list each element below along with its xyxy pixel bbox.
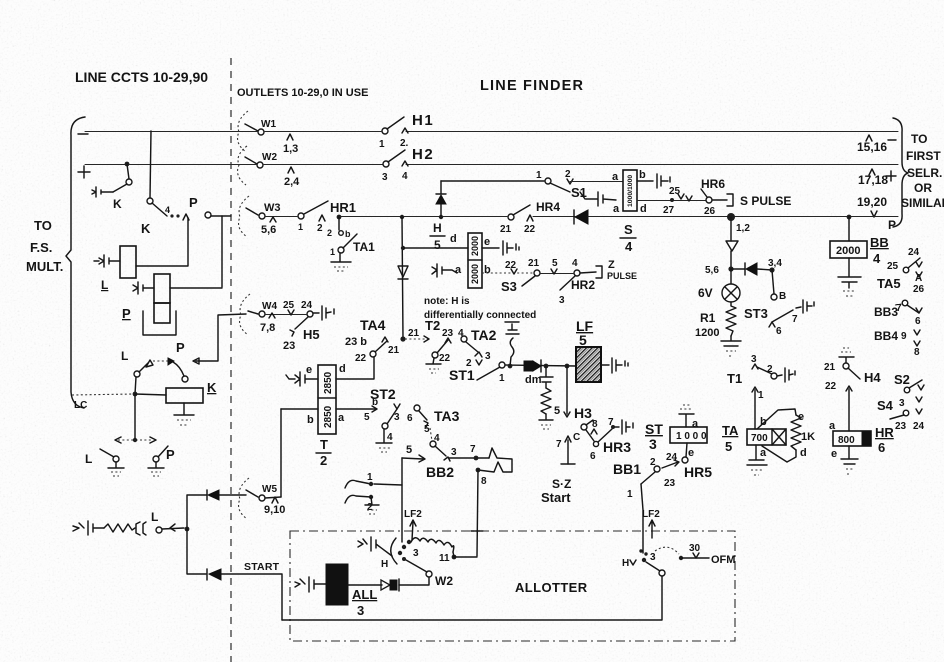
svg-text:4: 4 (165, 205, 170, 215)
capacitor HR3 (615, 420, 633, 434)
contact mark T2 (445, 338, 451, 343)
switch K (battery contact) circle (126, 179, 132, 185)
svg-text:3: 3 (485, 351, 491, 362)
svg-text:W2: W2 (262, 152, 277, 163)
svg-text:B: B (779, 291, 786, 302)
svg-text:21: 21 (408, 328, 420, 339)
svg-text:d: d (640, 203, 647, 215)
wire line3 to 2000 box (847, 215, 852, 220)
svg-text:21: 21 (500, 224, 512, 235)
wire down from P node to P relay (221, 216, 223, 287)
wire into W1 (245, 124, 258, 131)
svg-text:3: 3 (751, 354, 757, 365)
svg-text:L: L (101, 278, 108, 292)
svg-text:5: 5 (364, 412, 370, 423)
switch W2 contact circle (257, 162, 263, 168)
svg-text:8: 8 (592, 419, 598, 430)
wire line1 right segment (406, 131, 898, 133)
svg-text:24: 24 (301, 300, 313, 311)
wire W4 to H5 (265, 314, 306, 316)
svg-text:26: 26 (913, 284, 925, 295)
svg-text:d: d (800, 447, 807, 459)
svg-text:S3: S3 (501, 279, 517, 294)
spark quench loop (478, 448, 512, 472)
contact gap mark (136, 522, 146, 535)
svg-text:15,16: 15,16 (857, 140, 887, 154)
wire into W5 (246, 490, 258, 497)
wire contact2 to coil box a (570, 181, 623, 183)
capacitor right of LF (601, 358, 628, 373)
svg-text:a: a (613, 203, 620, 215)
svg-text:H3: H3 (574, 405, 592, 421)
armature H3 to 8 (586, 420, 593, 425)
battery P (133, 282, 154, 294)
capacitor ST3 (796, 300, 814, 313)
separator dashed line (230, 58, 232, 662)
svg-text:LC: LC (74, 400, 87, 411)
svg-text:2: 2 (767, 364, 773, 375)
armature T2 (437, 340, 448, 353)
wire bus to 2000 box (403, 247, 468, 249)
svg-text:5: 5 (554, 405, 560, 417)
svg-text:e: e (688, 447, 694, 459)
wire 2 to ground (365, 497, 379, 505)
svg-text:TO: TO (911, 132, 927, 146)
plus polarity mark line 2 (78, 166, 90, 178)
svg-text:6: 6 (776, 326, 782, 337)
svg-text:5: 5 (406, 444, 412, 456)
svg-text:9: 9 (901, 331, 907, 342)
label 17,18 plus (869, 169, 875, 175)
armature TA3 lower (435, 446, 446, 456)
relay stack 2850/2850 (318, 365, 336, 434)
contact arrow 22 (527, 215, 533, 221)
armature H3 to b (586, 430, 594, 441)
svg-text:1 0 0 0: 1 0 0 0 (676, 431, 707, 442)
wire corner to hooks (374, 458, 402, 485)
resistor bottom-left (104, 524, 135, 532)
rotary dots (407, 540, 411, 544)
switch K armature (113, 184, 127, 192)
switch W4 contact circle (259, 311, 265, 317)
svg-text:8: 8 (914, 347, 920, 358)
resistor R1 (726, 302, 736, 336)
wire line1 middle segment (265, 131, 381, 133)
switch P circle (205, 212, 211, 218)
junction dot HR1 node (337, 215, 342, 220)
hook contact 2 (345, 495, 371, 503)
svg-text:7: 7 (556, 439, 562, 450)
svg-text:K: K (113, 197, 122, 211)
svg-text:23 b: 23 b (345, 336, 367, 348)
capacitor e (482, 241, 519, 255)
armature BB1 (641, 472, 655, 484)
svg-text:2000: 2000 (470, 236, 480, 256)
diode on line3 (filled, left) (575, 210, 588, 224)
rotary LF2 left arc (391, 538, 397, 564)
wire TA1 stem (338, 217, 340, 230)
multiple arrow wire (double headed) (118, 439, 153, 441)
outlet arc W3 (239, 196, 249, 237)
switch H1 circle (382, 128, 388, 134)
wire line3 from node to HR4 (339, 216, 507, 218)
svg-text:b: b (307, 414, 314, 426)
S pulse bracket (712, 194, 733, 206)
switch ST1 circle (499, 362, 505, 368)
vertical bus x402 (402, 217, 403, 339)
switch H1 armature (387, 117, 404, 129)
BB2 wire 5 arrow (402, 455, 425, 462)
yoke U shape (143, 311, 176, 335)
svg-text:P: P (888, 218, 896, 232)
svg-text:3: 3 (357, 603, 364, 618)
switch S2 (904, 387, 910, 393)
svg-text:START: START (244, 561, 280, 573)
switch HR2 circle (574, 270, 580, 276)
svg-text:H1: H1 (412, 112, 434, 129)
svg-text:TA5: TA5 (877, 276, 901, 291)
ground TA1 (331, 253, 351, 262)
contact dots K/P row (170, 214, 173, 217)
svg-text:26: 26 (704, 206, 716, 217)
capacitor T1 (777, 368, 795, 382)
wire a to ST2 (336, 408, 376, 410)
LC dotted wire from bracket (72, 394, 135, 395)
svg-text:HR3: HR3 (603, 439, 631, 455)
diode ALL (filled right) (381, 580, 390, 590)
lamp 6V stem (730, 269, 732, 284)
wire right to diode (731, 268, 745, 270)
svg-text:HR4: HR4 (536, 200, 560, 214)
arrow up W4 (269, 313, 275, 318)
junction 7 (474, 456, 479, 461)
wire down to K contact (127, 164, 129, 179)
svg-text:ALL: ALL (352, 587, 377, 602)
svg-text:a: a (455, 264, 462, 276)
wire W3 to second contact (265, 216, 297, 218)
svg-text:6V: 6V (698, 286, 713, 300)
armature ST3 (772, 310, 793, 322)
TA4 contact arrow (382, 337, 388, 342)
arrow 5,6 (270, 217, 276, 222)
svg-text:17,18: 17,18 (858, 173, 888, 187)
svg-text:HR2: HR2 (571, 278, 595, 292)
diode on bus (hollow, down) (398, 266, 408, 279)
link into W4 circle (248, 311, 258, 314)
svg-text:23: 23 (664, 478, 676, 489)
svg-text:3: 3 (394, 412, 400, 423)
junction 1,2 on line3 (727, 213, 735, 221)
switch L start circle (156, 527, 162, 533)
svg-text:b: b (345, 229, 351, 239)
switch H3 circle (581, 424, 587, 430)
wire diode to 5,6 node (730, 251, 732, 269)
dotted wire b to S3 (482, 272, 533, 274)
wire node to K box (135, 394, 166, 395)
svg-text:25: 25 (887, 261, 899, 272)
switch HR6 circle (706, 197, 712, 203)
LF2 arrow right (649, 520, 655, 538)
wire LC node down (134, 394, 136, 439)
dotted link down (430, 428, 432, 441)
svg-text:TA1: TA1 (353, 240, 375, 254)
relay K box (166, 388, 203, 403)
armature H4 (848, 368, 860, 379)
svg-text:BB3: BB3 (874, 305, 898, 319)
svg-text:OUTLETS 10-29,0 IN USE: OUTLETS 10-29,0 IN USE (237, 87, 368, 99)
junction start (185, 527, 190, 532)
wire line2 left segment (85, 164, 256, 166)
svg-text:note: H is: note: H is (424, 296, 470, 307)
switch S4 (903, 410, 909, 416)
battery L (94, 255, 120, 267)
ground ST2 (376, 429, 392, 443)
svg-text:differentially connected: differentially connected (424, 310, 536, 321)
svg-text:T: T (320, 437, 328, 452)
svg-text:4: 4 (402, 171, 408, 182)
circle L bottom (113, 456, 119, 462)
wire line1 left segment (85, 131, 257, 133)
switch W1 contact circle (258, 129, 264, 135)
svg-text:e: e (306, 364, 312, 376)
allotter bottom wire (282, 576, 662, 620)
arrow contact to W4 wire (193, 314, 246, 364)
svg-text:5,6: 5,6 (261, 224, 276, 236)
armature L start (162, 528, 184, 529)
switch TA3 upper circle (414, 405, 420, 411)
svg-text:3: 3 (451, 447, 457, 458)
switch H2 armature (388, 150, 405, 162)
svg-text:700: 700 (751, 433, 768, 444)
resistor box 2000 (830, 241, 867, 258)
svg-text:22: 22 (524, 224, 536, 235)
switch TA3 lower circle (430, 441, 436, 447)
wire into W2 (245, 157, 257, 164)
lamp 6V (722, 284, 740, 302)
svg-text:8: 8 (481, 476, 487, 487)
svg-text:SELR.: SELR. (907, 166, 942, 180)
svg-text:24: 24 (913, 421, 925, 432)
T stem over 1000 box (679, 414, 694, 427)
svg-text:22: 22 (439, 353, 451, 364)
switch H4 circle (843, 363, 849, 369)
junction 11 (452, 555, 457, 560)
dashed arrow bus to T2 (405, 338, 428, 340)
svg-text:LINE FINDER: LINE FINDER (480, 78, 584, 94)
svg-text:1: 1 (379, 139, 385, 150)
arrow 2,4 on line2 (288, 167, 294, 173)
wire from L circle down to LC node (135, 377, 136, 394)
contact arrow up (183, 214, 189, 220)
svg-text:22: 22 (825, 381, 837, 392)
switch K2 armature (152, 203, 167, 216)
switch BB1 circle (654, 466, 660, 472)
relay box 2000/2000 (468, 233, 482, 288)
svg-text:H2: H2 (412, 146, 434, 163)
svg-text:HR1: HR1 (330, 200, 356, 215)
switch W3b circle (298, 213, 304, 219)
wire P box to vertical (170, 287, 222, 289)
contact mark H2 (402, 161, 408, 166)
ground under capacitor (843, 291, 856, 296)
contact mark 6 (769, 322, 775, 327)
contact arrow 5 (424, 421, 428, 427)
armature L pair (139, 363, 148, 372)
ground P bottom (148, 462, 164, 468)
junction 3,4 (769, 267, 774, 272)
switch HR4 circle (508, 214, 514, 220)
diode hollow down (726, 241, 738, 251)
switch W3 contact circle (259, 213, 265, 219)
svg-text:ST3: ST3 (744, 306, 768, 321)
contact mark (686, 196, 692, 201)
armature P pair (173, 362, 184, 376)
svg-text:11: 11 (439, 553, 450, 564)
wire LF junction down to H3 (566, 366, 568, 414)
svg-text:P: P (166, 447, 175, 462)
svg-text:7: 7 (792, 314, 798, 325)
svg-text:HR6: HR6 (701, 177, 725, 191)
wire up to W5 diode row (187, 495, 207, 529)
svg-text:21: 21 (528, 258, 540, 269)
wire box to HR5 (686, 443, 687, 457)
svg-text:23: 23 (283, 340, 295, 352)
svg-text:Start: Start (541, 490, 571, 505)
svg-text:5: 5 (424, 424, 430, 435)
armature S1 (550, 183, 570, 192)
junction wiper right (642, 558, 646, 562)
resistor box 1000 (670, 427, 707, 443)
wire ALL to diode (348, 584, 382, 586)
junction on line2 (K feed) (125, 162, 130, 167)
label 15,16 minus (866, 135, 872, 141)
svg-text:S·Z: S·Z (552, 477, 571, 491)
svg-text:23: 23 (895, 421, 907, 432)
switch H5 circle (307, 311, 313, 317)
svg-text:ALLOTTER: ALLOTTER (515, 580, 588, 595)
ground under K box (174, 403, 194, 415)
wire d row (637, 200, 706, 202)
armature ST1 (477, 367, 500, 380)
svg-text:HR: HR (875, 425, 894, 440)
wire L box to vertical (136, 218, 188, 266)
svg-text:K: K (207, 380, 217, 395)
circle P bottom (153, 456, 159, 462)
outlet arc W5 (239, 478, 249, 519)
junction 5,6 (728, 266, 733, 271)
vertical feed from line1 to K/P switch (150, 131, 151, 198)
wire down to 800 box (848, 389, 850, 431)
svg-text:R1: R1 (700, 311, 716, 325)
switch S1 circle (545, 178, 551, 184)
svg-text:1,2: 1,2 (736, 223, 750, 234)
outlet arc W4 (240, 294, 250, 335)
armature T1 (757, 367, 772, 374)
wire line3 diode to end (588, 216, 898, 218)
svg-text:K: K (141, 221, 151, 236)
svg-text:1: 1 (758, 390, 764, 401)
svg-text:a: a (338, 412, 345, 424)
arrow down 24 (288, 310, 294, 315)
svg-text:25: 25 (283, 300, 295, 311)
switch circle (allotter right) (659, 570, 665, 576)
svg-text:1: 1 (367, 472, 373, 483)
junction 27 (670, 198, 674, 202)
wire diode to W2 switch (399, 577, 429, 585)
armature TA2 (466, 342, 478, 352)
junction OFM (679, 556, 683, 560)
svg-text:3: 3 (413, 548, 419, 559)
allotter dash-dot box (290, 531, 735, 641)
switch L circle (134, 371, 140, 377)
outlet arc W2 (238, 146, 247, 185)
minus polarity mark line 1 (78, 133, 88, 135)
switch TA1 circle (338, 247, 344, 253)
svg-text:4: 4 (572, 258, 578, 269)
svg-text:24: 24 (908, 247, 920, 258)
svg-text:Z: Z (608, 259, 615, 271)
ground T2 (426, 358, 441, 364)
svg-text:OR: OR (914, 181, 932, 195)
svg-text:H: H (381, 559, 388, 570)
svg-text:LINE CCTS 10-29,90: LINE CCTS 10-29,90 (75, 69, 208, 85)
svg-text:P: P (189, 195, 198, 210)
vertical from BB1 down (641, 484, 643, 553)
wire diode to W5 (219, 494, 246, 496)
svg-text:H4: H4 (864, 370, 881, 385)
svg-text:F.S.: F.S. (30, 240, 52, 255)
coil box 1000/1000 (623, 170, 637, 211)
junction S1 branch (439, 215, 443, 219)
svg-text:L: L (85, 452, 92, 466)
switch P circle (182, 376, 188, 382)
wire line2 middle segment (264, 164, 383, 166)
svg-text:2000: 2000 (836, 245, 860, 257)
svg-text:1K: 1K (801, 431, 815, 443)
armature TA3 upper (419, 411, 427, 420)
svg-text:a: a (760, 447, 767, 459)
contact arrow 22 (846, 386, 852, 391)
svg-text:3: 3 (899, 398, 905, 409)
svg-text:6: 6 (878, 440, 885, 455)
ground below resistor (539, 414, 553, 420)
svg-text:SIMILAR: SIMILAR (901, 196, 944, 210)
Z pulse bracket (580, 266, 602, 278)
svg-text:6: 6 (590, 451, 596, 462)
wire line3 HR4 to diode (533, 216, 575, 218)
svg-text:ST1: ST1 (449, 367, 475, 383)
svg-text:b: b (484, 264, 491, 276)
wire TA4 circle down and left to 2850 d (336, 357, 374, 379)
svg-text:TA2: TA2 (471, 327, 497, 343)
junction at 567 (565, 364, 570, 369)
wire line2 right segment (406, 164, 898, 166)
arrow 1,3 on line1 (287, 134, 293, 140)
ground 700 box (747, 445, 767, 465)
armature L bottom (100, 449, 114, 457)
svg-text:1,3: 1,3 (283, 143, 298, 155)
svg-text:5: 5 (434, 238, 441, 252)
svg-text:2: 2 (327, 228, 332, 238)
dashed arc to OFM (655, 547, 679, 554)
contact mark 3 (475, 352, 482, 357)
svg-text:LF2: LF2 (642, 509, 660, 520)
armature HR1 (304, 201, 328, 214)
battery a (432, 264, 457, 277)
wire down to rotary (401, 485, 403, 542)
svg-text:TO: TO (34, 218, 52, 233)
svg-text:T1: T1 (727, 371, 742, 386)
